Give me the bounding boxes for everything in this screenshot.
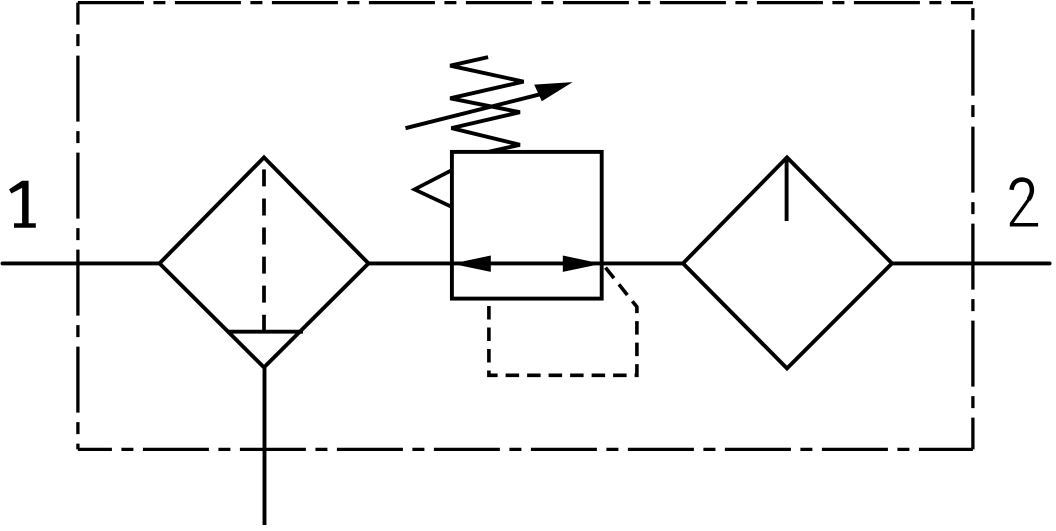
- regulator U1: valve body box: [452, 152, 602, 299]
- wire: drain line below filter: [263, 367, 267, 525]
- wire: filter to regulator: [369, 261, 453, 265]
- regulator relief vent triangle: [415, 171, 451, 207]
- lubricator drip line: [785, 159, 789, 222]
- port label 1: [9, 181, 36, 228]
- port label 2: [1010, 180, 1038, 225]
- lubricator: diamond body: [683, 157, 892, 368]
- regulator adjustment spring: [450, 57, 523, 152]
- regulator flow path with double arrow: [452, 256, 602, 272]
- filter with water separator: diamond body: [160, 157, 369, 367]
- pilot control dashed line loop: [489, 268, 637, 376]
- wire: outlet line to port 2: [892, 261, 1050, 265]
- water separator chord line: [227, 330, 303, 334]
- wire: inlet line from port 1: [3, 261, 161, 265]
- filter element dashed centerline: [262, 169, 266, 331]
- enclosure dash-dot border (service unit frame): [78, 3, 973, 450]
- wire: regulator to lubricator: [602, 261, 683, 265]
- spring adjustment arrow: [406, 82, 573, 128]
